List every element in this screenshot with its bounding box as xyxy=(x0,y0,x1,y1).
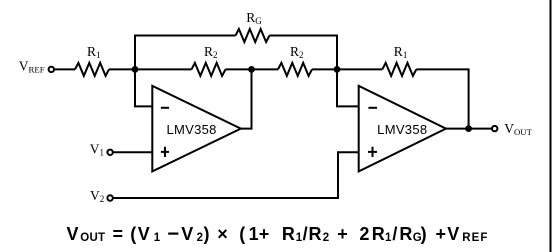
svg-text:=: = xyxy=(113,224,124,244)
svg-text:LMV358: LMV358 xyxy=(166,122,216,137)
svg-text:V: V xyxy=(447,224,459,244)
svg-text:OUT: OUT xyxy=(80,232,105,244)
svg-text:1: 1 xyxy=(154,232,161,244)
svg-text:2: 2 xyxy=(323,232,330,244)
svg-text:V: V xyxy=(67,224,79,244)
svg-text:+: + xyxy=(436,224,447,244)
svg-text:(: ( xyxy=(130,224,136,244)
svg-text:1: 1 xyxy=(296,232,303,244)
svg-text:R: R xyxy=(372,224,385,244)
svg-text:1: 1 xyxy=(385,232,392,244)
svg-text:(: ( xyxy=(239,224,245,244)
svg-text:V: V xyxy=(181,224,193,244)
svg-text:+: + xyxy=(337,224,348,244)
svg-text:+: + xyxy=(259,224,270,244)
svg-text:R: R xyxy=(282,224,295,244)
svg-text:LMV358: LMV358 xyxy=(377,122,427,137)
svg-text:2: 2 xyxy=(197,232,204,244)
svg-text:R: R xyxy=(309,224,322,244)
svg-text:V: V xyxy=(138,224,150,244)
svg-text:R: R xyxy=(399,224,412,244)
svg-text:/: / xyxy=(303,224,308,244)
svg-text:2: 2 xyxy=(359,224,369,244)
svg-text:×: × xyxy=(217,224,228,244)
svg-text:/: / xyxy=(392,224,397,244)
svg-text:): ) xyxy=(204,224,210,244)
svg-text:REF: REF xyxy=(462,232,488,244)
svg-text:1: 1 xyxy=(249,224,259,244)
svg-text:G: G xyxy=(413,232,422,244)
